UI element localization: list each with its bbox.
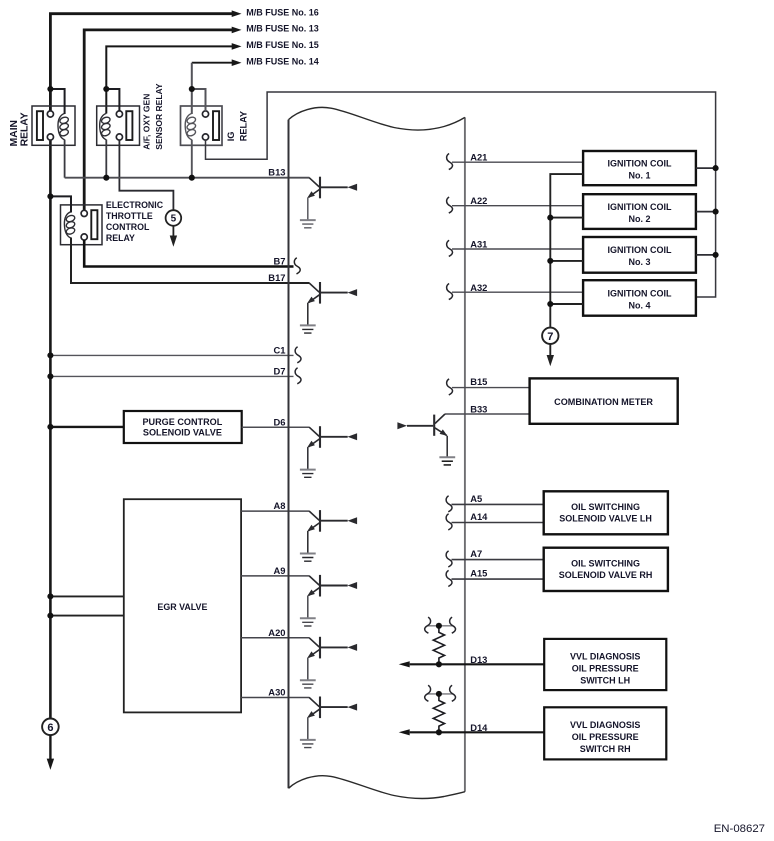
svg-text:PURGE CONTROL: PURGE CONTROL — [142, 417, 222, 427]
svg-text:7: 7 — [547, 331, 553, 343]
svg-text:B15: B15 — [470, 376, 487, 387]
svg-text:SENSOR RELAY: SENSOR RELAY — [154, 83, 164, 150]
svg-text:No. 1: No. 1 — [628, 170, 650, 180]
svg-text:A7: A7 — [470, 548, 482, 559]
svg-text:SOLENOID VALVE RH: SOLENOID VALVE RH — [559, 570, 653, 580]
svg-text:No. 2: No. 2 — [628, 214, 650, 224]
svg-text:SWITCH LH: SWITCH LH — [580, 676, 630, 686]
svg-text:A15: A15 — [470, 567, 487, 578]
svg-text:IGNITION COIL: IGNITION COIL — [608, 158, 673, 168]
svg-text:OIL SWITCHING: OIL SWITCHING — [571, 502, 640, 512]
svg-text:A31: A31 — [470, 239, 487, 250]
svg-text:EN-08627: EN-08627 — [714, 823, 765, 835]
svg-text:IGNITION COIL: IGNITION COIL — [608, 245, 673, 255]
svg-text:M/B FUSE No. 15: M/B FUSE No. 15 — [246, 40, 319, 50]
svg-text:A22: A22 — [470, 195, 487, 206]
svg-text:5: 5 — [171, 214, 177, 225]
svg-text:VVL DIAGNOSIS: VVL DIAGNOSIS — [570, 652, 640, 662]
svg-text:A9: A9 — [274, 565, 286, 576]
svg-text:SWITCH RH: SWITCH RH — [580, 744, 631, 754]
svg-text:IG: IG — [226, 132, 236, 142]
svg-text:SOLENOID VALVE: SOLENOID VALVE — [143, 427, 222, 437]
svg-text:VVL DIAGNOSIS: VVL DIAGNOSIS — [570, 720, 640, 730]
svg-text:CONTROL: CONTROL — [106, 222, 150, 232]
svg-text:B17: B17 — [268, 272, 285, 283]
svg-text:RELAY: RELAY — [238, 111, 248, 141]
svg-text:OIL PRESSURE: OIL PRESSURE — [572, 664, 639, 674]
svg-text:A21: A21 — [470, 152, 487, 163]
svg-text:OIL SWITCHING: OIL SWITCHING — [571, 559, 640, 569]
svg-text:EGR VALVE: EGR VALVE — [157, 602, 207, 612]
svg-text:B7: B7 — [274, 255, 286, 266]
svg-text:A14: A14 — [470, 511, 488, 522]
svg-text:M/B FUSE No. 14: M/B FUSE No. 14 — [246, 57, 319, 67]
svg-text:6: 6 — [47, 722, 53, 734]
svg-text:A/F, OXY GEN: A/F, OXY GEN — [142, 94, 152, 150]
svg-text:OIL PRESSURE: OIL PRESSURE — [572, 732, 639, 742]
svg-text:ELECTRONIC: ELECTRONIC — [106, 200, 164, 210]
svg-text:A20: A20 — [268, 627, 285, 638]
svg-text:A5: A5 — [470, 493, 482, 504]
svg-text:M/B FUSE No. 16: M/B FUSE No. 16 — [246, 8, 319, 18]
svg-text:B33: B33 — [470, 404, 487, 415]
svg-text:D7: D7 — [274, 366, 286, 377]
svg-text:C1: C1 — [274, 345, 286, 356]
svg-text:THROTTLE: THROTTLE — [106, 211, 153, 221]
svg-text:RELAY: RELAY — [106, 233, 135, 243]
svg-text:SOLENOID VALVE LH: SOLENOID VALVE LH — [559, 514, 652, 524]
svg-text:COMBINATION METER: COMBINATION METER — [554, 397, 653, 407]
svg-text:D6: D6 — [274, 416, 286, 427]
svg-text:B13: B13 — [268, 167, 285, 178]
svg-text:IGNITION COIL: IGNITION COIL — [608, 288, 673, 298]
svg-text:RELAY: RELAY — [19, 112, 30, 146]
svg-text:A8: A8 — [274, 500, 286, 511]
svg-text:No. 4: No. 4 — [628, 300, 650, 310]
svg-text:M/B FUSE No. 13: M/B FUSE No. 13 — [246, 24, 319, 34]
svg-text:A30: A30 — [268, 687, 285, 698]
svg-text:No. 3: No. 3 — [628, 257, 650, 267]
svg-text:A32: A32 — [470, 282, 487, 293]
svg-text:IGNITION COIL: IGNITION COIL — [608, 202, 673, 212]
